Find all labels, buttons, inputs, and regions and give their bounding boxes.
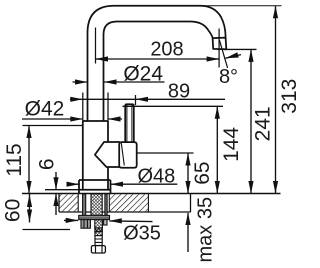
extension line 208 left <box>95 28 97 64</box>
extension lines body top <box>83 93 108 122</box>
svg-text:Ø24: Ø24 <box>123 62 163 85</box>
clamping washer plate <box>79 215 110 219</box>
svg-text:Ø42: Ø42 <box>25 97 65 120</box>
base flange Ø48 <box>79 180 111 193</box>
extension line nozzle axis <box>218 29 220 68</box>
hose tail piece <box>95 232 102 246</box>
dim 144 <box>216 106 218 193</box>
svg-text:6: 6 <box>36 158 59 170</box>
extension line 60 bottom <box>23 229 71 231</box>
stud nut left <box>81 220 90 229</box>
extension line spout top for 313 <box>200 5 282 7</box>
extension line 115 top <box>23 125 83 127</box>
svg-text:8°: 8° <box>219 66 238 88</box>
dim 6 <box>55 172 57 215</box>
extension line lever right for 89 <box>135 95 137 105</box>
handle boss pentagon <box>95 142 120 167</box>
dim 115 <box>28 126 30 194</box>
countertop slab with hatching <box>59 194 191 213</box>
dim Ø35 <box>64 220 153 221</box>
svg-text:Ø48: Ø48 <box>137 166 175 188</box>
spout tube outline <box>88 6 226 121</box>
countertop top surface line <box>22 193 281 195</box>
spout nozzle outlet <box>213 38 227 50</box>
svg-text:208: 208 <box>150 38 183 60</box>
dim Ø24 <box>73 81 165 83</box>
dim 89 <box>70 98 225 100</box>
svg-text:max 35: max 35 <box>195 197 217 263</box>
body Ø42 <box>83 121 108 190</box>
svg-text:144: 144 <box>220 127 243 162</box>
svg-text:Ø35: Ø35 <box>123 222 161 244</box>
dim Ø42 leader <box>22 118 122 120</box>
cartridge housing <box>119 142 137 168</box>
svg-text:313: 313 <box>278 79 300 114</box>
dim max35 <box>187 213 189 252</box>
dim 208 line <box>96 58 220 60</box>
8 degree slant line <box>219 40 227 68</box>
threaded shank <box>91 194 102 231</box>
extension line nozzle bottom for 241 <box>224 48 257 50</box>
svg-text:89: 89 <box>168 80 190 102</box>
svg-text:241: 241 <box>251 106 274 141</box>
extension line lever top for 144 <box>123 105 224 107</box>
dim Ø48 <box>67 183 177 185</box>
dim 313 <box>275 6 277 194</box>
dim 65 <box>187 153 189 194</box>
svg-text:65: 65 <box>191 161 214 184</box>
stud end right <box>104 220 107 225</box>
dim 60 <box>29 194 31 223</box>
dim 241 <box>250 49 252 193</box>
8 degree wedge arrow <box>226 52 239 58</box>
extension line cartridge for 65 <box>137 152 194 154</box>
svg-text:115: 115 <box>3 143 26 176</box>
svg-text:60: 60 <box>1 199 24 222</box>
mounting studs <box>83 194 108 215</box>
hose hex nut <box>91 246 105 253</box>
lever bar <box>125 104 134 142</box>
extension line 6 flange bottom <box>45 189 79 191</box>
